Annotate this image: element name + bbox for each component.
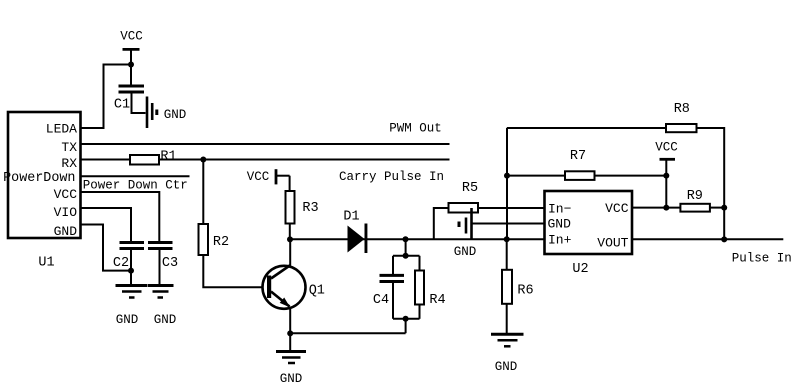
- ground (sideways) at R5 / U2 GND: [459, 208, 472, 240]
- wire C2 bottom to ground: [130, 249, 132, 286]
- node junction R7 tap: [504, 173, 510, 179]
- wire node down to C4/R4 top rail: [405, 239, 407, 256]
- wire U1 VIO pin to C2: [81, 208, 132, 243]
- svg-text:GND: GND: [54, 224, 78, 239]
- wire C4/R4 bottom rail: [393, 318, 420, 320]
- resistor R1: [130, 155, 159, 165]
- svg-text:VCC: VCC: [605, 201, 629, 216]
- wire feedback vertical (R8/R7 to In+ node): [506, 128, 508, 240]
- wire R7 left segment: [507, 175, 565, 177]
- svg-text:R8: R8: [674, 102, 690, 117]
- svg-text:GND: GND: [495, 360, 518, 374]
- wire R8 right segment down to VOUT: [697, 128, 725, 239]
- wire U1 VCC pin to C3: [81, 192, 160, 243]
- node junction R9/R8: [721, 205, 727, 211]
- wire emitter to ground: [289, 333, 291, 351]
- wire diode line (node to U2 In+): [290, 238, 545, 240]
- wire R8 left segment: [507, 127, 666, 129]
- svg-text:GND: GND: [548, 217, 572, 232]
- wire node down to R6: [506, 239, 508, 269]
- svg-text:PowerDown: PowerDown: [3, 171, 75, 186]
- wire TX / PWM Out line: [81, 143, 450, 145]
- svg-text:R7: R7: [570, 149, 586, 164]
- svg-text:R4: R4: [429, 293, 445, 308]
- svg-text:In+: In+: [548, 233, 572, 248]
- node junction top rail: [403, 253, 409, 259]
- svg-text:Pulse In: Pulse In: [732, 252, 792, 266]
- node junction C2/GND pin: [128, 268, 134, 274]
- transistor Q1: [263, 239, 306, 333]
- wire R3 bottom to collector node: [289, 224, 291, 240]
- svg-text:GND: GND: [454, 245, 477, 259]
- ground below R6: [491, 334, 524, 346]
- svg-text:GND: GND: [164, 108, 187, 122]
- wire R2 to Q1 base: [203, 255, 267, 287]
- resistor R3: [286, 191, 295, 224]
- wire C1 bottom to ground: [132, 92, 146, 113]
- svg-text:Power Down Ctr: Power Down Ctr: [83, 179, 188, 193]
- diode D1: [348, 224, 368, 254]
- resistor R2: [199, 224, 209, 255]
- wire R9 to VOUT vertical: [710, 207, 724, 209]
- node junction VOUT: [721, 236, 727, 242]
- wire U2 VCC pin to R9: [632, 207, 680, 209]
- capacitor C2: [120, 243, 145, 249]
- svg-text:LEDA: LEDA: [46, 122, 77, 137]
- wire VOUT / Pulse In line: [632, 238, 783, 240]
- node junction bottom rail: [403, 316, 409, 322]
- svg-text:GND: GND: [280, 372, 303, 386]
- node junction emitter: [287, 330, 293, 336]
- svg-text:VCC: VCC: [655, 141, 678, 155]
- svg-text:R6: R6: [517, 284, 533, 299]
- wire R7 right segment: [595, 175, 667, 177]
- svg-text:VOUT: VOUT: [597, 236, 628, 251]
- node junction R3/D1/collector: [287, 236, 293, 242]
- wire R6 to ground: [506, 304, 508, 335]
- resistor R7: [565, 171, 595, 180]
- ground below C2: [116, 286, 148, 298]
- IC U1: [8, 112, 81, 238]
- svg-text:C3: C3: [162, 256, 178, 271]
- svg-text:R9: R9: [687, 189, 703, 204]
- wire VCC to R3: [289, 176, 291, 192]
- capacitor C4: [380, 256, 405, 319]
- svg-text:R3: R3: [302, 201, 318, 216]
- svg-text:TX: TX: [61, 140, 77, 155]
- wire U2 GND pin: [472, 223, 545, 225]
- wire PowerDown net: [81, 175, 190, 177]
- power VCC symbol above U2: [660, 159, 676, 207]
- wire C3 bottom to ground: [159, 249, 161, 286]
- wire branch up to R5: [434, 208, 449, 239]
- svg-text:R2: R2: [213, 235, 229, 250]
- wire LEDA from U1 to VCC/C1 node: [81, 65, 132, 129]
- power VCC symbol above C1: [123, 49, 140, 86]
- ground (sideways) at C1: [147, 97, 157, 129]
- resistor R5: [449, 203, 479, 213]
- node junction VCC/U2 VCC: [663, 205, 669, 211]
- resistor R4: [415, 256, 424, 319]
- capacitor C1: [119, 86, 145, 92]
- node junction RX to R2: [200, 157, 206, 163]
- svg-text:C4: C4: [373, 293, 389, 308]
- svg-text:U1: U1: [38, 256, 54, 271]
- wire RX node down to R2: [202, 160, 204, 225]
- resistor R9: [680, 204, 710, 212]
- svg-text:PWM Out: PWM Out: [389, 122, 442, 136]
- wire bottom rail down to emitter wire: [405, 319, 407, 333]
- svg-text:U2: U2: [572, 262, 588, 277]
- svg-text:Q1: Q1: [309, 284, 325, 299]
- svg-text:R1: R1: [160, 150, 176, 165]
- node junction In+ / R6: [504, 236, 510, 242]
- wire emitter to C4/R4 bottom: [290, 332, 405, 334]
- svg-text:D1: D1: [343, 210, 359, 225]
- svg-text:VCC: VCC: [120, 30, 143, 44]
- power VCC symbol (sideways) at R3: [276, 169, 290, 184]
- ground below Q1: [276, 352, 306, 364]
- svg-text:GND: GND: [116, 313, 139, 327]
- node junction D1 out: [403, 236, 409, 242]
- svg-text:VIO: VIO: [54, 205, 78, 220]
- node junction at C1 top: [128, 62, 134, 68]
- wire U1 GND pin to C2 bottom node: [81, 225, 132, 271]
- svg-text:C1: C1: [114, 98, 130, 113]
- node junction VCC/R7: [663, 173, 669, 179]
- svg-text:In−: In−: [548, 202, 572, 217]
- wire RX / Carry Pulse In line: [81, 159, 450, 161]
- ground below C3: [148, 286, 174, 298]
- svg-text:RX: RX: [61, 156, 77, 171]
- resistor R6: [502, 270, 512, 304]
- svg-text:VCC: VCC: [247, 170, 270, 184]
- svg-text:C2: C2: [113, 256, 129, 271]
- resistor R8: [666, 124, 697, 132]
- svg-text:GND: GND: [154, 313, 177, 327]
- op-amp U2 block: [545, 191, 633, 254]
- wire R5 to U2 In-: [478, 207, 545, 209]
- svg-text:R5: R5: [462, 181, 478, 196]
- wire C4/R4 top rail: [393, 255, 420, 257]
- svg-text:Carry Pulse In: Carry Pulse In: [339, 170, 444, 184]
- capacitor C3: [148, 243, 173, 249]
- svg-text:VCC: VCC: [54, 187, 78, 202]
